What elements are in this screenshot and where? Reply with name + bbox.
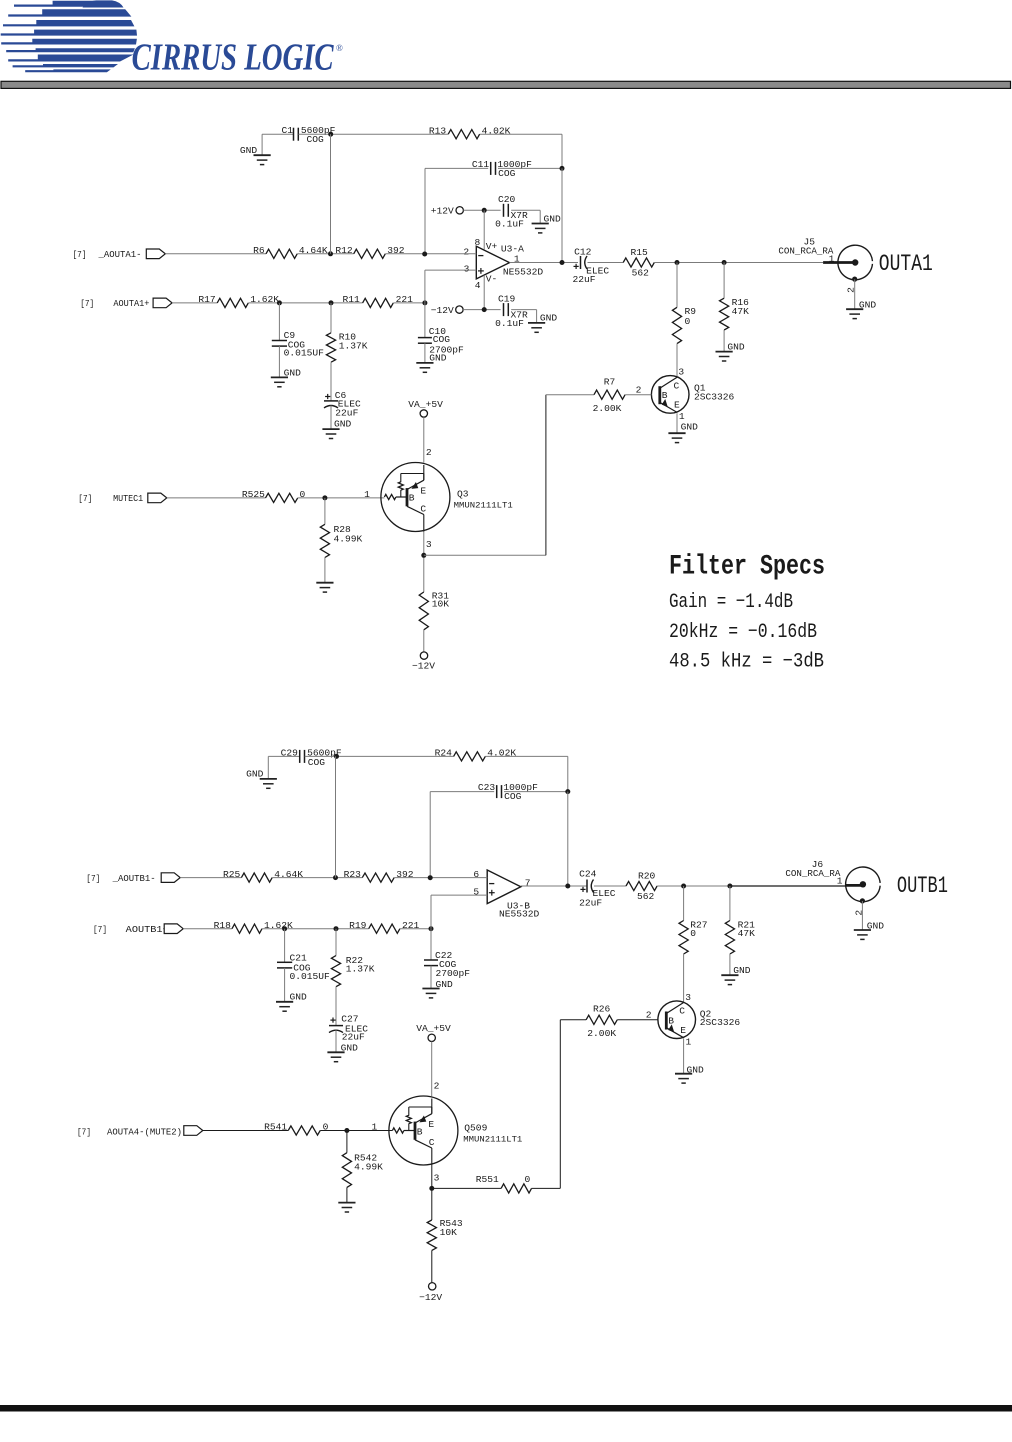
label R525 [242,489,265,500]
capacitor C23 [497,785,502,798]
label R541 value [323,1122,329,1133]
label Q509 pin1 [372,1122,378,1133]
resistor R27 [679,921,688,955]
svg-text:CIRRUS LOGIC: CIRRUS LOGIC [132,36,334,78]
transistor Q2 [658,1001,696,1039]
terminal +12V [456,207,463,214]
label V+ [486,241,498,252]
label R22 [346,955,364,966]
svg-text:2.00K: 2.00K [593,403,622,414]
svg-text:[7]: [7] [93,924,107,935]
svg-text:3: 3 [678,366,684,377]
svg-text:1.37K: 1.37K [346,964,375,975]
wire R542 gnd [346,1187,348,1202]
resistor R31 [419,592,428,630]
label GND R21 [733,965,751,976]
label Q1 part [694,391,735,402]
svg-text:2SC3326: 2SC3326 [700,1017,741,1028]
svg-text:R25: R25 [223,869,241,880]
svg-text:MMUN2111LT1: MMUN2111LT1 [454,501,513,511]
label -12V A [412,660,435,671]
svg-text:1: 1 [837,876,843,887]
label Q509 C [429,1137,435,1148]
label C6 value [335,408,358,419]
label -12V B [419,1292,442,1303]
wire C29 gnd elbow [268,756,299,779]
wire C19 gnd [511,310,536,323]
op-amp plus [478,268,484,274]
wire R525-Q3 [298,497,385,499]
label Q1 pin2b [636,385,642,396]
label GND C9 [284,367,302,378]
wire C22 top [430,929,432,960]
label R23 [344,869,362,880]
svg-text:7: 7 [525,877,531,888]
node C29-R24 junction [334,754,339,759]
label C21 COG [293,962,311,973]
svg-text:5: 5 [473,886,479,897]
svg-text:OUTB1: OUTB1 [897,873,948,899]
resistor R11 [363,298,394,307]
label C20 X7R [511,210,529,221]
resistor R9 [672,307,681,343]
label R7 value [593,403,622,414]
svg-text:COG: COG [307,134,325,145]
label J6 pin2 [854,910,865,916]
label C11 value [497,159,532,179]
svg-text:NE5532D: NE5532D [499,909,540,920]
wire VA-Q509 [431,1042,433,1097]
label C6 [335,390,347,401]
svg-text:2.00K: 2.00K [587,1028,616,1039]
svg-text:22uF: 22uF [335,408,358,419]
resistor R6 [266,249,297,258]
label Q2 pin1 [686,1037,692,1048]
svg-text:47K: 47K [738,928,756,939]
ground Q1 [668,433,685,442]
capacitor C24 [587,880,594,893]
svg-text:C: C [429,1137,435,1148]
label C1 value [301,125,336,145]
label C24 ELEC [593,888,616,899]
svg-text:3: 3 [426,539,432,550]
connector input1 B [161,873,180,883]
svg-text:[7]: [7] [80,298,94,309]
svg-text:GND: GND [544,213,562,224]
text 20kHz [669,621,817,644]
svg-text:R7: R7 [604,376,616,387]
terminal -12V A [420,652,427,659]
connector input2 B [164,924,183,934]
label _AOUTB1- [112,873,156,884]
label R7 [604,376,616,387]
svg-text:U3-A: U3-A [501,244,524,255]
op-amp plus B [489,890,495,896]
label J6 part [785,868,840,879]
label Q509 E [428,1119,434,1130]
svg-text:_AOUTB1-: _AOUTB1- [112,873,156,884]
wire Q1 emitter gnd [676,413,678,433]
wire R22-C27 [335,987,337,1026]
svg-text:_AOUTA1-: _AOUTA1- [98,249,142,260]
svg-text:COG: COG [308,757,326,768]
label pin8 [475,237,481,248]
svg-text:C: C [679,1006,685,1017]
wire J6 link [730,885,845,887]
resistor R15 [623,258,654,267]
label R543 value [440,1227,458,1238]
svg-text:R19: R19 [349,920,367,931]
connector J5 RCA [838,245,873,282]
label -12V [431,305,454,316]
connector MUTE2 [184,1126,203,1136]
svg-text:B: B [417,1126,423,1137]
wire -12V [463,309,501,311]
node Q3 collector junction [421,553,426,558]
label R16 value [732,306,750,317]
label R542 [354,1153,377,1164]
label R27 [690,919,707,930]
svg-text:AOUTB1+: AOUTB1+ [126,924,169,935]
svg-text:3: 3 [464,263,470,274]
svg-text:C11: C11 [472,159,490,170]
label U3-A part [503,266,544,277]
header rule bar [1,81,1011,88]
text Filter Specs [669,551,825,582]
resistor R25 [241,873,272,882]
label Q3 part [454,501,513,511]
capacitor C9 [272,341,287,347]
svg-text:C1: C1 [281,125,293,136]
svg-text:0.015UF: 0.015UF [284,348,325,359]
svg-text:2: 2 [463,246,469,257]
svg-text:−12V: −12V [419,1292,442,1303]
label Q509 pin2 [434,1081,440,1092]
op-amp minus B [489,883,494,885]
wire input2 [172,302,217,304]
label Q509 B [417,1126,423,1137]
svg-text:2SC3326: 2SC3326 [694,391,735,402]
label R31 value [432,599,450,610]
label OUTB1 [897,873,948,899]
label R25 value [274,869,303,880]
svg-text:®: ® [336,43,343,53]
label pin1 [514,253,520,264]
svg-text:Gain = −1.4dB: Gain = −1.4dB [669,591,793,614]
label R15 value [632,268,650,279]
svg-text:CON_RCA_RA: CON_RCA_RA [778,246,833,257]
svg-text:AOUTA4-(MUTE2): AOUTA4-(MUTE2) [107,1127,182,1138]
node pin2 junction [422,252,427,257]
label AOUTA1+ [113,298,149,309]
svg-text:R6: R6 [253,245,265,256]
svg-text:47K: 47K [732,306,750,317]
wire C12-R15 [588,262,624,264]
label C20 [498,194,516,205]
label Q2 pin2b [646,1010,652,1021]
wire J6 thick [845,884,863,887]
label C27 [341,1014,358,1025]
wire R26 left [560,1019,586,1021]
svg-text:R20: R20 [638,871,656,882]
label R22 value [346,964,375,975]
svg-text:COG: COG [504,791,522,802]
label _AOUTA1- [98,249,142,260]
label R13 [429,125,447,136]
resistor R17 [217,298,248,307]
ground C20 [532,224,549,233]
svg-text:1.62K: 1.62K [250,294,279,305]
node pin6 junction [428,875,433,880]
svg-text:GND: GND [727,341,745,352]
svg-text:6: 6 [473,869,479,880]
svg-text:10K: 10K [440,1227,458,1238]
wire output column B [567,792,569,886]
label C12 [574,246,592,257]
resistor R20 [626,881,657,890]
svg-text:562: 562 [632,268,650,279]
wire J6 pin2 [861,901,863,930]
svg-text:GND: GND [240,145,258,156]
svg-text:1: 1 [686,1037,692,1048]
svg-text:MUTEC1: MUTEC1 [113,493,143,504]
node pin5 junction [429,926,434,931]
terminal -12V B [429,1283,436,1290]
wire C11 left [425,168,488,254]
wire R10 top [330,303,332,333]
svg-text:2: 2 [846,287,857,293]
wire R9 top [676,263,678,308]
resistor R23 [362,873,394,882]
ground R542 [338,1203,355,1212]
svg-text:R541: R541 [264,1122,287,1133]
label C27 plus [330,1018,335,1023]
label R17 value [250,294,279,305]
wire Q3-R7 link [424,395,546,556]
label OUTA1 [879,251,933,277]
wire R10-C6 [330,362,332,401]
svg-text:GND: GND [540,313,558,324]
label [7] mute2 [77,1127,91,1138]
label R6 [253,245,265,256]
footer rule bar [0,1405,1012,1412]
connector J6 RCA [846,867,881,904]
resistor R22 [331,956,340,987]
svg-text:GND: GND [733,965,751,976]
node R9 junction [675,260,680,265]
wire input1 [165,253,266,255]
label GND C29 [246,769,264,780]
wire opamp out [510,260,579,265]
capacitor C22 [424,960,438,966]
label R15 [631,247,649,258]
resistor R26 [586,1015,617,1024]
label R18 value [264,920,293,931]
resistor R21 [725,921,734,955]
node C9 junction [277,300,282,305]
label C6 ELEC [338,398,361,409]
svg-text:221: 221 [396,294,414,305]
label R17 [198,294,215,305]
label Q1 pin1 [679,411,685,422]
svg-text:22uF: 22uF [579,897,602,908]
wire C23 right [504,791,568,793]
label C9 value [284,348,325,359]
label R541 [264,1122,287,1133]
wire R15-J5 [654,262,823,264]
ground C1 [254,155,271,164]
svg-text:B: B [662,390,668,401]
label R525 value [300,489,306,500]
label R28 value [334,534,363,545]
label GND C19 [540,313,558,324]
svg-text:E: E [680,1025,686,1036]
resistor R551 [501,1184,531,1193]
label C9 COG [288,339,306,350]
wire R542 top [346,1131,348,1153]
label Q2 E [680,1025,686,1036]
label U3-B [507,900,530,911]
label pin6 [473,869,479,880]
svg-text:0: 0 [525,1174,531,1185]
svg-text:V+: V+ [486,241,498,252]
label R24 [435,748,453,759]
ground C27 [327,1052,344,1061]
label R27 value [690,928,696,939]
wire output column [561,168,563,262]
label C24 plus [580,887,585,892]
wire R23-opamp [394,877,487,879]
capacitor C19 [504,303,509,316]
label R11 value [396,294,414,305]
label R26 [593,1003,611,1014]
label R6 value [299,245,328,256]
svg-text:C: C [674,380,680,391]
wire R18-R19 [262,928,369,930]
ground R16 [716,352,733,361]
wire C22 gnd [430,966,432,989]
resistor R28 [320,524,329,557]
label C22 COG [439,959,457,970]
svg-text:GND: GND [334,418,352,429]
svg-text:4: 4 [475,280,481,291]
label C19 X7R [511,310,529,321]
label R13 value [482,125,511,136]
Cirrus Logic logo swirl [1,0,137,72]
svg-text:1.37K: 1.37K [339,340,368,351]
label R21 value [738,928,756,939]
capacitor C12 [581,256,588,269]
svg-text:CON_RCA_RA: CON_RCA_RA [785,868,840,879]
resistor R18 [232,924,262,933]
ground C21 [276,1002,293,1011]
terminal VA B [428,1034,435,1041]
wire R551 line [432,1187,501,1189]
capacitor C1 [294,128,299,141]
svg-text:R15: R15 [631,247,649,258]
connector input2 [153,298,172,308]
ground R21 [721,975,738,984]
ground C10 [416,363,433,372]
svg-text:B: B [668,1015,674,1026]
label GND C6 [334,418,352,429]
ground Q2 [675,1074,692,1083]
svg-text:4.02K: 4.02K [487,748,516,759]
wire C23 left [430,792,494,878]
svg-text:0: 0 [323,1122,329,1133]
wire C11 right [498,167,562,169]
wire C27 gnd [335,1030,337,1052]
Cirrus Logic logo text [132,36,343,78]
capacitor C6 [324,401,338,408]
label R28 [334,524,352,535]
svg-text:1: 1 [679,411,685,422]
svg-text:E: E [428,1119,434,1130]
label Q1 E [674,400,680,411]
label GND C20 [544,213,562,224]
node R27 junction [681,884,686,889]
svg-text:R26: R26 [593,1003,611,1014]
wire C10 gnd [424,343,426,363]
ground C9 [271,377,288,386]
wire +12V [463,209,500,211]
resistor R12 [354,249,386,258]
label R543 [440,1218,463,1229]
wire R28 top [324,498,326,524]
wire C1 gnd elbow [262,134,293,155]
node pin3 junction [422,300,427,305]
wire C10 top [424,303,426,338]
svg-text:392: 392 [387,245,405,256]
svg-text:3: 3 [685,992,691,1003]
wire R9-Q1 [676,344,678,377]
label [7] input2 [80,298,94,309]
label C19 value [495,318,524,329]
transistor Q3 [381,463,450,532]
svg-text:R24: R24 [435,748,453,759]
label R9 [685,306,697,317]
node R10 junction [329,300,334,305]
wire Q2 emitter gnd [683,1039,685,1074]
label pin2 [463,246,469,257]
capacitor C21 [277,962,292,968]
svg-text:2: 2 [426,447,432,458]
wire R21 gnd [729,954,731,975]
label Q2 [700,1008,712,1019]
label [7] input1 [73,249,87,260]
label Q3 pin2 [426,447,432,458]
wire opamp out B [521,884,587,889]
wire VA-Q3 [423,417,425,463]
svg-text:4.64K: 4.64K [299,245,328,256]
wire Q509 collector [431,1165,433,1220]
node R6-R12 junction [328,251,333,256]
label R10 value [339,340,368,351]
label MUTEC1 [113,493,143,504]
label AOUTB1+ [126,924,169,935]
wire R11-node [393,302,425,304]
label R551 [476,1174,499,1185]
label R20 value [637,891,655,902]
svg-text:R11: R11 [343,294,361,305]
label C29 [281,748,299,759]
svg-text:C19: C19 [498,294,516,305]
label GND Q1 [681,422,699,433]
label Q3 [457,489,469,500]
wire Q3 collector [423,532,425,593]
wire R27-Q2 [683,954,685,1002]
transistor Q1 [651,376,689,414]
